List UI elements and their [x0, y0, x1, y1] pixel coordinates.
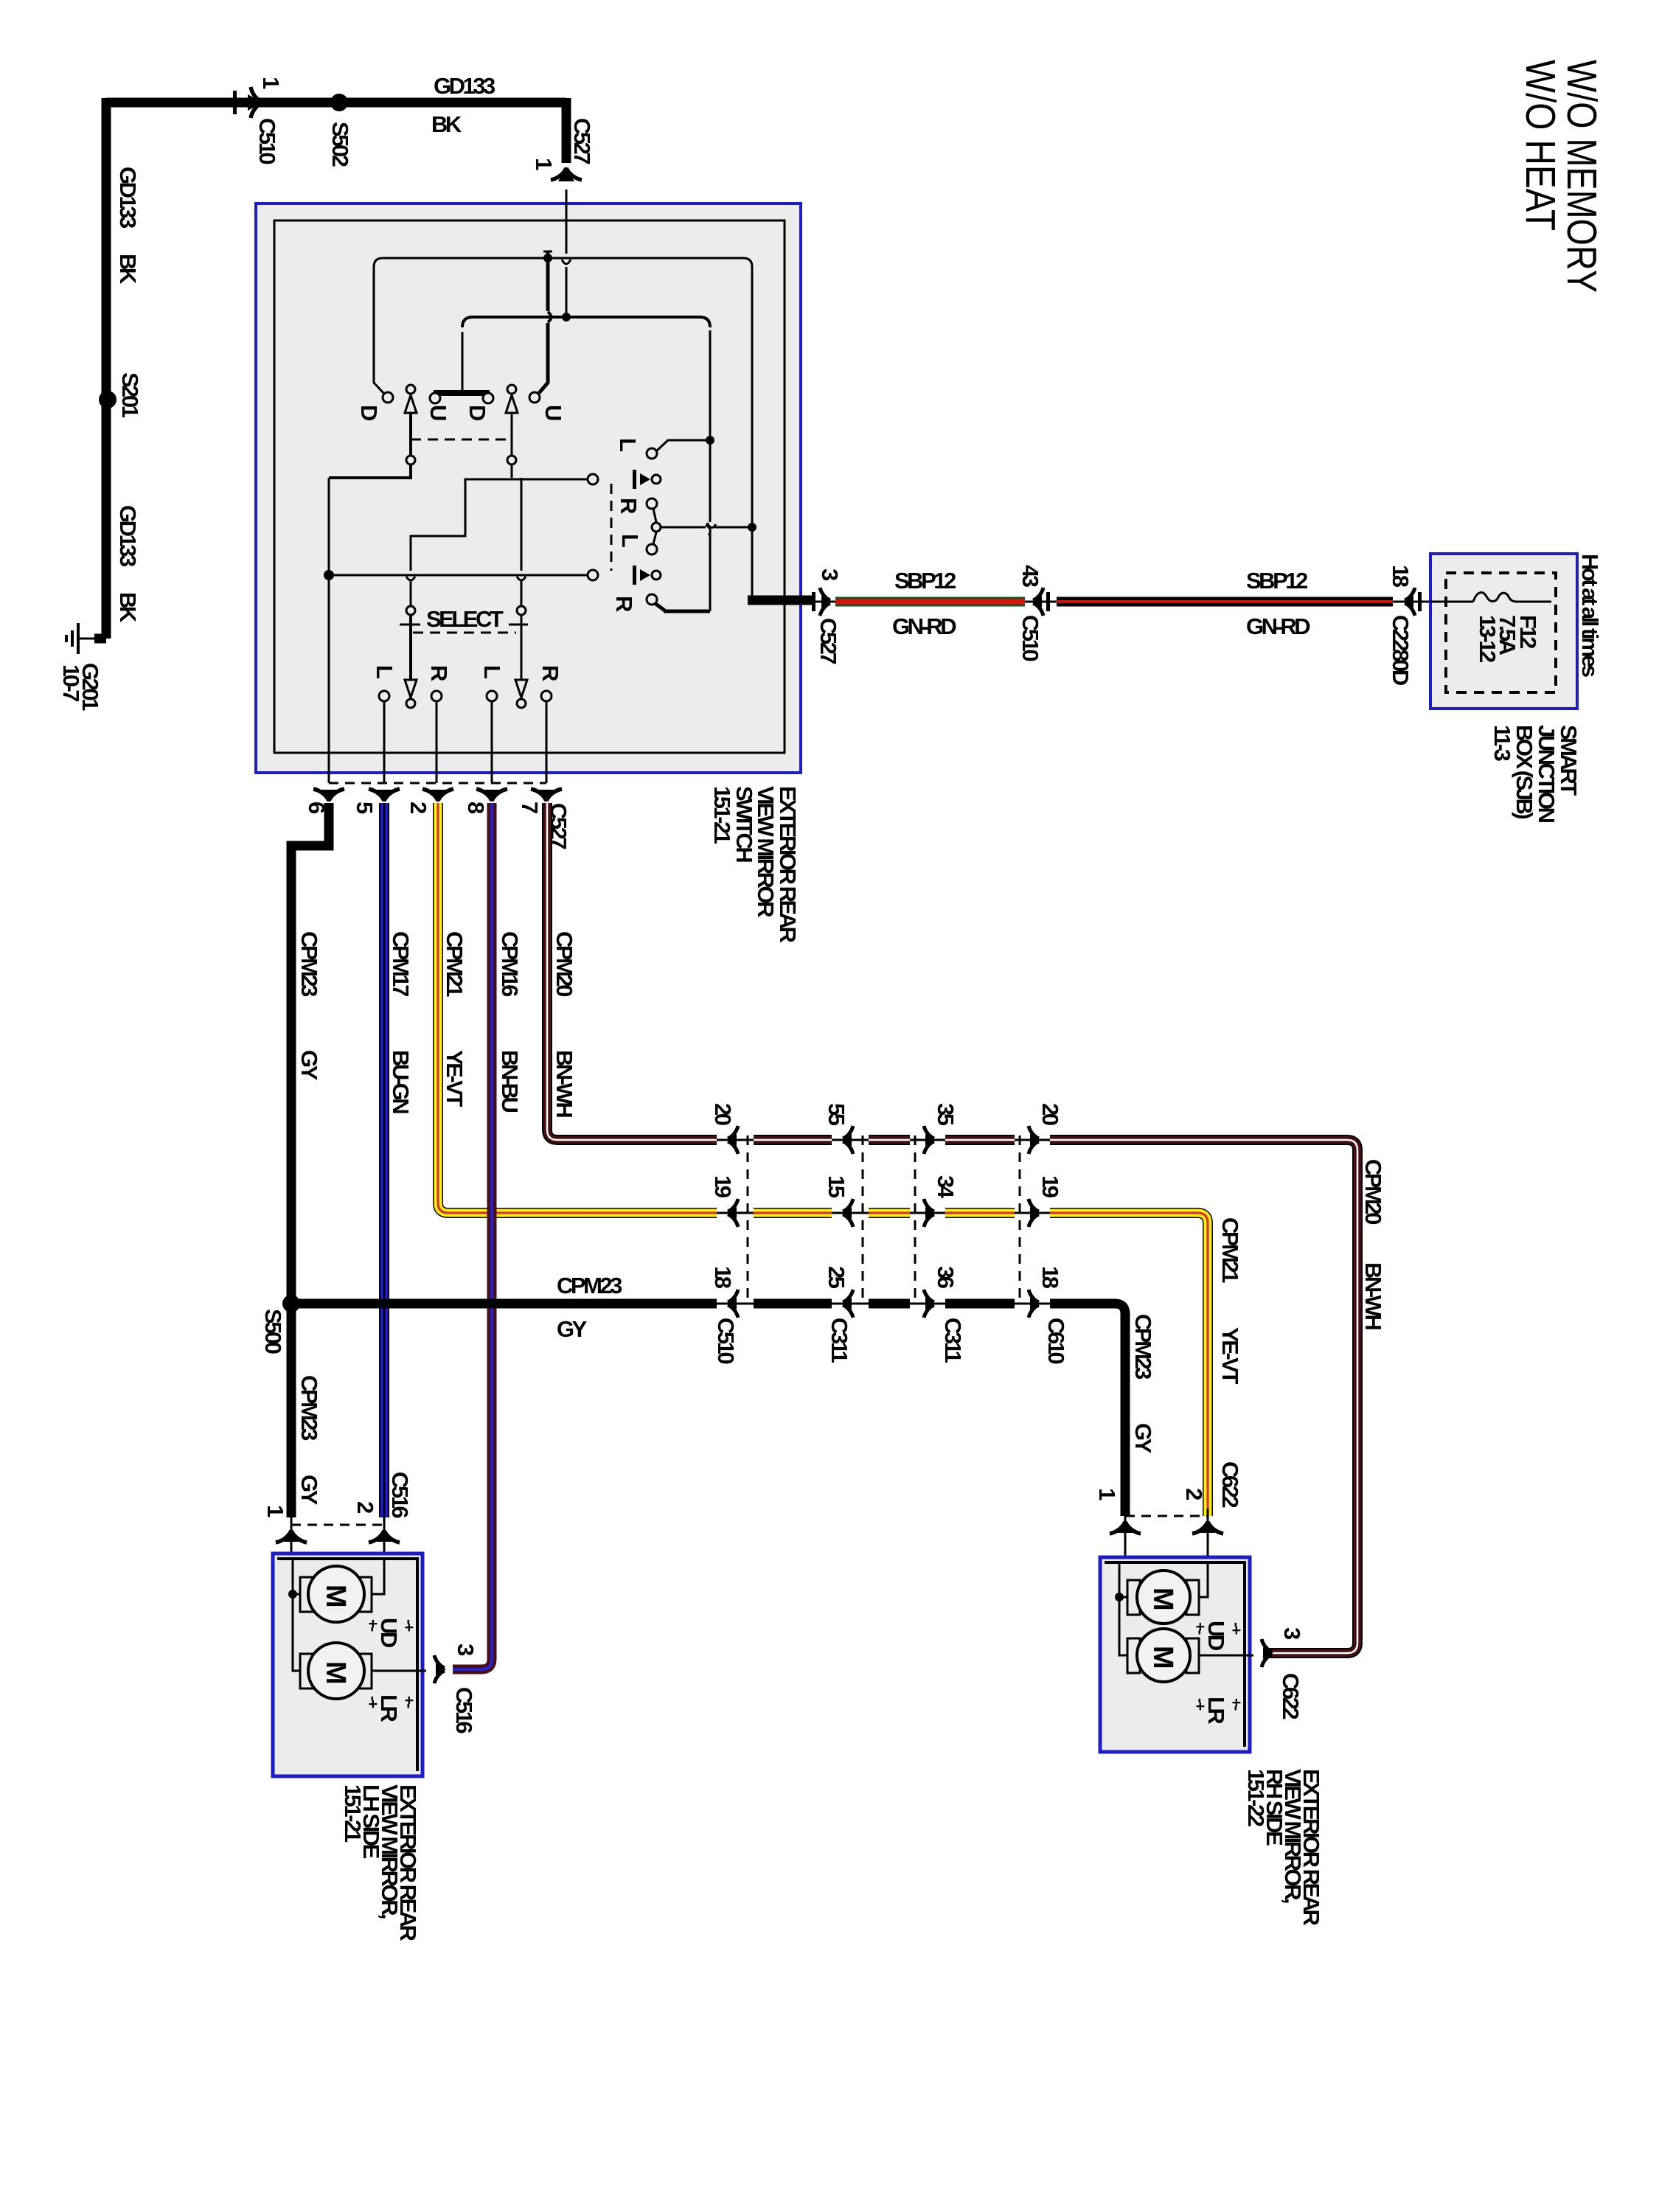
- connector C527 pin 2 arrow: [422, 789, 453, 802]
- LH mirror pin 2 lead: [383, 1517, 386, 1554]
- label EXTERIOR REAR VIEW MIRROR SWITCH 151-21: [709, 786, 801, 943]
- svg-text:GY: GY: [1130, 1423, 1156, 1454]
- svg-text:C311: C311: [940, 1318, 966, 1363]
- RH mirror pin 2 arrow: [1192, 1520, 1223, 1534]
- junction dot LH pin1 branch: [288, 1590, 297, 1599]
- svg-text:18: 18: [710, 1266, 736, 1289]
- L/R middle contacts pair: [647, 498, 661, 554]
- connector C2280D pin 18 arrow: [1393, 588, 1430, 616]
- svg-text:YE-VT: YE-VT: [1217, 1327, 1243, 1384]
- dashed mechanical link U/D wipers: [411, 439, 512, 441]
- select switch pivot 2: [517, 606, 526, 615]
- connector C527 pin 7 arrow: [531, 789, 562, 802]
- svg-text:+-: +-: [1228, 1698, 1245, 1711]
- switch internal: select Z path: [406, 479, 588, 606]
- svg-text:CPM23: CPM23: [296, 931, 322, 997]
- svg-text:11-3: 11-3: [1489, 725, 1515, 762]
- svg-text:C527: C527: [569, 118, 595, 164]
- svg-text:L: L: [615, 438, 641, 451]
- wire middle contacts to SJB feed riser: [661, 523, 752, 528]
- svg-text:SBP12: SBP12: [1246, 568, 1307, 594]
- wire SBP12 GN-RD segment 1: [835, 597, 1025, 607]
- in-line connector C610 dashed line: [1019, 1135, 1021, 1304]
- svg-text:18: 18: [1388, 565, 1413, 588]
- svg-text:LR: LR: [1203, 1697, 1229, 1724]
- label EXTERIOR REAR VIEW MIRROR RH SIDE 151-22: [1243, 1769, 1324, 1926]
- junction dot RH pin1 branch: [1115, 1593, 1124, 1601]
- svg-text:C622: C622: [1217, 1461, 1243, 1507]
- svg-text:25: 25: [824, 1266, 849, 1289]
- junction dot wire C / pin6: [324, 570, 334, 580]
- svg-text:CPM21: CPM21: [442, 931, 467, 997]
- svg-text:C510: C510: [1018, 615, 1043, 661]
- RH mirror connector C622 dashed line: [1125, 1515, 1208, 1517]
- svg-text:19: 19: [1037, 1175, 1063, 1198]
- wire GD133 drop to C527: [562, 98, 571, 163]
- select arm 1: [405, 615, 417, 708]
- svg-text:20: 20: [710, 1103, 736, 1125]
- svg-text:36: 36: [933, 1266, 959, 1289]
- L/R top contact L: [647, 440, 710, 459]
- in-line connector C610 arrows: [1029, 1126, 1040, 1318]
- svg-text:43: 43: [1018, 565, 1043, 588]
- select contact L2: [487, 691, 497, 701]
- in-line connector C311-2 dashed line: [914, 1135, 917, 1304]
- svg-text:BN-WH: BN-WH: [1360, 1262, 1386, 1329]
- svg-text:15: 15: [824, 1175, 849, 1198]
- splice S201: [99, 391, 116, 408]
- L/R rocker: wire B right riser: [706, 330, 710, 611]
- svg-text:BK: BK: [431, 111, 462, 137]
- RH mirror box: exterior rear view mirror RH side: [1100, 1557, 1250, 1752]
- select switch pivot 1: [406, 606, 415, 615]
- label LR polarity (RH): [1192, 1697, 1245, 1724]
- svg-text:C527: C527: [815, 618, 841, 664]
- LH mirror L/R motor M: [300, 1643, 372, 1699]
- LH mirror internal wiring: [293, 1559, 426, 1671]
- junction dot SJB feed: [748, 523, 757, 532]
- connector C527 pin 5 arrow: [369, 789, 400, 802]
- title W/O MEMORY W/O HEAT: [1517, 60, 1605, 293]
- svg-text:GD133: GD133: [115, 505, 141, 567]
- L/R bottom contact R: [647, 594, 710, 611]
- svg-text:CPM21: CPM21: [1217, 1217, 1243, 1283]
- pin drop wires to switch connector: [329, 580, 546, 783]
- contact circle wiper1 top: [406, 385, 415, 394]
- connector C510 pin 43 arrow: [1025, 588, 1057, 616]
- dashed mechanical link L/R wipers: [611, 484, 613, 571]
- svg-text:20: 20: [1037, 1103, 1063, 1125]
- select contact L1: [379, 691, 389, 701]
- svg-text:-+: -+: [400, 1619, 417, 1632]
- junction dot riser/top contact branch: [706, 436, 714, 445]
- switch internal: wire A (top rail): [374, 258, 752, 524]
- label EXTERIOR REAR VIEW MIRROR LH SIDE 151-21: [340, 1784, 421, 1941]
- svg-text:C610: C610: [1043, 1318, 1069, 1363]
- LH mirror pin 3 arrow: [434, 1655, 446, 1683]
- svg-text:55: 55: [824, 1103, 849, 1126]
- svg-text:R: R: [611, 596, 637, 612]
- svg-text:7: 7: [517, 801, 543, 813]
- switch internal: U/D wiper 2 arm: [506, 395, 518, 478]
- select contact R2: [541, 691, 552, 701]
- label UD polarity (LH): [364, 1618, 417, 1648]
- SJB feed riser lower: [751, 527, 754, 596]
- in-line connector C311-1 arrows: [841, 1126, 853, 1318]
- svg-text:D: D: [465, 405, 490, 421]
- L/R wiper rail 1 circle: [588, 474, 598, 484]
- wire CPM20 BN-WH (pin 7, brown-white): [547, 803, 1357, 1653]
- contact circle wiper2 top: [507, 385, 516, 394]
- svg-text:C2280D: C2280D: [1388, 615, 1413, 686]
- svg-text:CPM16: CPM16: [497, 931, 523, 997]
- ground wire GD133 BK horizontal segment: [106, 98, 566, 108]
- svg-text:M: M: [320, 1661, 351, 1685]
- svg-text:W/O MEMORY: W/O MEMORY: [1558, 60, 1605, 293]
- svg-text:Hot at all times: Hot at all times: [1577, 554, 1603, 677]
- LH mirror pin 1 lead: [291, 1517, 293, 1554]
- svg-text:C516: C516: [387, 1472, 413, 1518]
- svg-text:CPM17: CPM17: [388, 931, 414, 996]
- svg-text:L: L: [479, 665, 505, 678]
- svg-text:CPM20: CPM20: [1360, 1159, 1386, 1224]
- svg-text:M: M: [1147, 1646, 1178, 1669]
- contact circle U1: [430, 393, 440, 403]
- svg-text:13-12: 13-12: [1475, 615, 1500, 662]
- svg-text:L: L: [372, 665, 397, 678]
- wire GD133 BK vertical left column: [102, 98, 111, 639]
- RH mirror pin 1 arrow: [1110, 1520, 1141, 1534]
- svg-text:GD133: GD133: [434, 73, 495, 99]
- svg-text:W/O HEAT: W/O HEAT: [1517, 60, 1564, 231]
- svg-text:GY: GY: [557, 1316, 588, 1342]
- svg-text:151-21: 151-21: [340, 1784, 366, 1843]
- wire SBP12 GN-RD arrow at switch (pin 3 C527): [812, 588, 835, 616]
- svg-text:2: 2: [352, 1501, 378, 1513]
- label SMART JUNCTION BOX (SJB) 11-3: [1489, 725, 1582, 823]
- switch internal: thick bar U1-D2: [434, 390, 490, 396]
- smart junction box (SJB): [1430, 554, 1577, 709]
- switch box inner black border: [274, 220, 785, 753]
- svg-text:R: R: [426, 665, 452, 681]
- wire SBP12 GN-RD segment 2: [1057, 597, 1393, 607]
- svg-text:C311: C311: [827, 1318, 852, 1363]
- svg-text:BN-WH: BN-WH: [552, 1050, 577, 1117]
- svg-text:C516: C516: [451, 1687, 477, 1733]
- switch internal: select 2 riser: [517, 478, 526, 606]
- svg-text:M: M: [320, 1585, 351, 1608]
- wire CPM21 YE-VT (pin 2, yellow): [438, 803, 1208, 1516]
- svg-text:U: U: [540, 405, 566, 420]
- contact circle D1: [383, 392, 393, 403]
- svg-text:34: 34: [933, 1175, 959, 1199]
- svg-text:-+: -+: [1228, 1622, 1245, 1635]
- svg-text:L: L: [617, 534, 643, 547]
- RH mirror U/D motor M: [1127, 1571, 1199, 1624]
- svg-text:S502: S502: [327, 122, 353, 167]
- svg-text:CPM20: CPM20: [552, 931, 577, 996]
- in-line connector C311-2 arrows: [924, 1126, 936, 1318]
- svg-text:GN-RD: GN-RD: [892, 613, 956, 639]
- splice S500: [282, 1295, 300, 1312]
- svg-text:BU-GN: BU-GN: [388, 1050, 414, 1113]
- select contact R1: [431, 691, 442, 701]
- connector C527 pin 1 arrow (up): [551, 167, 582, 181]
- wire from C527 pin 1 into switch (thin vertical): [562, 189, 571, 317]
- svg-text:CPM23: CPM23: [296, 1375, 322, 1441]
- svg-text:SELECT: SELECT: [426, 606, 504, 632]
- switch internal: U/D wiper 1 arm: [329, 395, 417, 478]
- svg-text:GY: GY: [296, 1050, 322, 1081]
- svg-text:M: M: [1147, 1587, 1178, 1611]
- svg-text:LR: LR: [376, 1694, 402, 1722]
- svg-text:D: D: [356, 405, 382, 421]
- switch internal: wire C (select feed rail): [329, 574, 588, 577]
- svg-text:2: 2: [1181, 1488, 1207, 1500]
- switch internal: wire B (second rail): [462, 317, 710, 390]
- in-line connector C510 dashed line: [747, 1135, 749, 1304]
- RH mirror internal wiring: [1119, 1562, 1253, 1655]
- LH mirror pin 1 arrow: [276, 1529, 307, 1543]
- svg-text:19: 19: [710, 1175, 736, 1198]
- RH mirror pin 1 lead: [1124, 1509, 1127, 1557]
- svg-text:10-7: 10-7: [58, 664, 84, 701]
- svg-text:C510: C510: [713, 1318, 739, 1363]
- label F12 7.5A 13-12: [1475, 615, 1541, 662]
- switch internal: U2 contact riser (thick): [539, 251, 552, 393]
- connector C527 pin 6 arrow: [313, 789, 344, 802]
- svg-text:UD: UD: [376, 1618, 402, 1648]
- label LR polarity (LH): [364, 1694, 417, 1722]
- connector C527 (switch bottom) dashed line: [329, 782, 546, 785]
- svg-text:BN-BU: BN-BU: [497, 1050, 523, 1112]
- wire CPM16 BN-BU (pin 8, brown-blue): [453, 803, 492, 1669]
- svg-text:151-22: 151-22: [1243, 1769, 1269, 1826]
- contact circle wiper1 mid: [406, 456, 415, 465]
- select arm 2: [515, 615, 527, 708]
- LH mirror pin 2 arrow: [369, 1529, 400, 1543]
- svg-text:SBP12: SBP12: [894, 568, 956, 594]
- L/R wiper 2 arrow: [633, 566, 661, 585]
- svg-text:BK: BK: [115, 592, 141, 623]
- svg-text:R: R: [538, 665, 563, 681]
- svg-text:U: U: [425, 405, 451, 420]
- svg-text:S201: S201: [117, 372, 143, 418]
- contact circle U2: [529, 392, 540, 403]
- L/R wiper rail 2 circle: [588, 570, 598, 580]
- contact circle wiper2 mid: [507, 456, 516, 465]
- wire CPM17 BU-GN (pin 5, blue): [379, 803, 389, 1517]
- connector C510 pin 1 arrow on GD133: [233, 87, 262, 118]
- LH mirror connector C516 dashed line: [291, 1524, 384, 1526]
- thick feed exit to SBP12: [748, 596, 812, 605]
- RH mirror L/R motor M: [1127, 1629, 1199, 1682]
- wire CPM23 GY (pin 6, black) upper leg: [291, 803, 329, 1517]
- LH mirror box: exterior rear view mirror LH side: [273, 1554, 422, 1776]
- svg-text:UD: UD: [1203, 1621, 1229, 1651]
- svg-text:GD133: GD133: [115, 167, 141, 229]
- svg-text:C510: C510: [254, 118, 280, 164]
- svg-text:S500: S500: [260, 1309, 286, 1354]
- in-line connector C510 arrows: [726, 1126, 738, 1318]
- junction dot wire A / U2 riser: [543, 254, 552, 262]
- wire CPM23 GY horizontal to RH mirror: [291, 1304, 1125, 1516]
- fuse F12 7.5A element: [1430, 593, 1551, 602]
- svg-text:BK: BK: [115, 254, 141, 285]
- contact circle D2: [483, 393, 493, 403]
- svg-text:YE-VT: YE-VT: [442, 1050, 467, 1107]
- svg-text:GN-RD: GN-RD: [1246, 613, 1310, 639]
- RH mirror pin 2 lead: [1207, 1509, 1209, 1557]
- RH mirror pin 3 arrow: [1262, 1639, 1273, 1667]
- svg-text:C622: C622: [1278, 1673, 1304, 1719]
- label UD polarity (RH): [1192, 1621, 1245, 1651]
- svg-text:2: 2: [406, 801, 431, 813]
- SJB dashed inner box: [1446, 573, 1556, 692]
- LH mirror U/D motor M: [300, 1566, 372, 1622]
- svg-text:GY: GY: [296, 1475, 322, 1506]
- switch internal: pin6 riser: [328, 478, 330, 575]
- svg-text:R: R: [616, 498, 641, 514]
- svg-text:CPM23: CPM23: [1130, 1314, 1156, 1380]
- connector C527 pin 8 arrow: [476, 789, 507, 802]
- svg-text:CPM23: CPM23: [557, 1273, 622, 1298]
- in-line connector C311-1 dashed line: [862, 1135, 864, 1304]
- svg-text:35: 35: [933, 1103, 959, 1126]
- splice S502: [330, 94, 348, 111]
- svg-text:+-: +-: [400, 1696, 417, 1708]
- svg-text:18: 18: [1037, 1266, 1063, 1289]
- label SELECT with dashes: [400, 606, 528, 633]
- switch box: exterior rear view mirror switch (blue outer): [256, 204, 801, 773]
- junction dot wire B / C527 line: [562, 313, 571, 321]
- L/R wiper 1 arrow: [633, 470, 661, 489]
- svg-text:151-21: 151-21: [709, 786, 735, 844]
- ground G201 symbol: [66, 623, 106, 654]
